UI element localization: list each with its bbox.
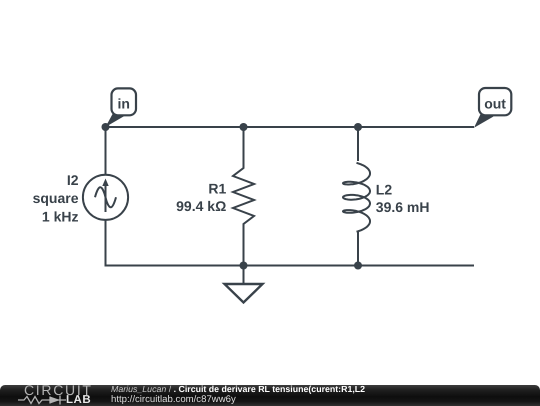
resistor R1 leads and zigzag [233, 127, 254, 266]
junction dot R1 top [240, 123, 248, 131]
junction dot R1 bottom [240, 262, 248, 270]
junction dot node in [102, 123, 110, 131]
node in bubble tail [106, 110, 127, 128]
svg-text:R1: R1 [208, 181, 226, 197]
logo diode [50, 395, 66, 404]
svg-text:out: out [484, 95, 506, 111]
footer bar [0, 385, 540, 406]
current source I2 sine wave [95, 187, 116, 207]
footer line 2 [111, 394, 236, 405]
ground triangle [225, 284, 263, 303]
footer line 1 [111, 384, 365, 395]
current source I2 arrowhead [102, 179, 108, 187]
svg-text:square: square [33, 190, 79, 206]
svg-text:1 kHz: 1 kHz [42, 209, 79, 225]
wire bottom rail [105, 265, 475, 267]
logo resistor zigzag [18, 396, 50, 403]
current source I2 arrow shaft [105, 184, 107, 212]
inductor L2 lead top [357, 127, 359, 161]
node in bubble [112, 88, 137, 115]
wire left vertical (source leads) [105, 127, 107, 266]
svg-text:I2: I2 [67, 172, 79, 188]
junction dot L2 top [354, 123, 362, 131]
wire top rail [106, 126, 475, 128]
node out bubble [479, 88, 511, 115]
ground stub wire [243, 266, 245, 285]
inductor L2 coil [343, 163, 370, 232]
current source I2 circle [83, 175, 128, 220]
svg-text:39.6 mH: 39.6 mH [376, 199, 430, 215]
LAB text [66, 394, 91, 406]
svg-text:99.4 kΩ: 99.4 kΩ [176, 198, 226, 214]
svg-text:in: in [117, 96, 129, 112]
inductor L2 lead bottom [357, 232, 359, 266]
node out bubble tail [474, 110, 494, 128]
svg-text:L2: L2 [376, 181, 393, 197]
CircuitLab logo symbol + LAB [16, 394, 112, 406]
CircuitLab logo wordmark [24, 383, 93, 397]
junction dot L2 bottom [354, 262, 362, 270]
